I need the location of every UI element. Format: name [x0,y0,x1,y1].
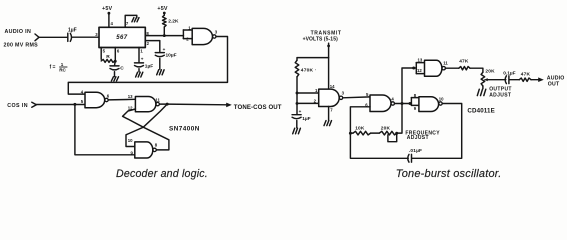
node junction latch out [166,103,169,106]
wire gate C output [160,103,168,105]
capacitor 0.1uF output [505,76,506,84]
svg-text:2.2K: 2.2K [168,19,179,25]
svg-text:567: 567 [116,35,127,41]
wire to G1 pin1 [297,92,319,94]
node junction pin8/2.2K [163,34,166,37]
svg-text:6: 6 [117,49,120,54]
svg-text:10: 10 [128,138,133,143]
svg-text:.01µF: .01µF [409,148,422,154]
wire G3 input bracket [410,98,412,106]
svg-text:+VOLTS (5-15): +VOLTS (5-15) [303,36,338,42]
NAND U2c gate C (pins 13,12,11) [135,97,156,112]
node junction pot wiper [395,132,398,135]
capacitor C (timing) [110,65,119,67]
svg-text:COS IN: COS IN [7,103,28,109]
svg-text:+: + [163,47,166,52]
wire pot wiper arrow [485,79,488,81]
capacitor 10uF [155,52,164,54]
wire cross-couple C-out to D pin10 [126,104,167,146]
svg-text:5: 5 [103,49,106,54]
resistor 470K [295,60,299,77]
ground (1uF G1) [293,128,295,134]
node junction G3 bracket [409,102,412,105]
node TONE-COS OUT arrow [226,103,232,108]
svg-text:1µF: 1µF [68,27,77,33]
svg-text:RC: RC [59,67,66,72]
wire audio-in to C-in [39,36,67,38]
svg-text:+: + [141,56,144,61]
wire 47K to pot top [470,68,483,72]
svg-text:470K ·: 470K · [301,67,317,73]
node COS IN input arrow [32,102,37,107]
svg-text:10K: 10K [355,125,365,131]
wire branch to 470K [297,58,329,61]
wire pin8 output [145,35,183,37]
capacitor .01uF [408,154,409,162]
wire pin5 [100,48,102,60]
wire C-in to pin3 [72,36,99,38]
svg-text:SN7400N: SN7400N [169,125,200,132]
wire pin6 [114,48,116,62]
wire inverter input bracket [182,30,184,39]
node +5V terminal (pin4) [108,12,111,15]
NAND G2 CD4011 (pins 5,6,4) [370,95,391,112]
node junction R/C/pin6 [114,60,117,63]
node junction G1 pin2 [296,102,299,105]
wire pin7 to ground [125,15,137,27]
svg-text:12: 12 [417,68,422,73]
svg-text:2: 2 [147,41,150,46]
wire pin1 to 1uF [138,48,140,63]
wire cap to G3 out [412,104,462,159]
svg-text:4: 4 [391,96,394,101]
wire cap to 47K [509,79,519,81]
potentiometer 20K output adjust [481,72,485,86]
svg-text:+5V: +5V [157,6,168,12]
svg-text:+5V: +5V [102,6,113,12]
svg-text:CD4011E: CD4011E [467,108,495,115]
NAND U2a (7400 pins 1,2,3) [192,28,212,44]
svg-text:9: 9 [414,106,417,111]
svg-text:47K: 47K [521,72,531,78]
NAND G1 CD4011 (pins 1,2,3,14,7) [319,89,340,106]
svg-text:12: 12 [128,105,133,110]
capacitor 1uF (G1 input) [292,114,301,116]
svg-text:1: 1 [140,49,143,54]
wire G1 out to G2 [343,96,370,99]
wire COS junction down to gate D pin9 [75,104,135,154]
svg-text:1µF: 1µF [302,116,310,122]
ground (pin7) [132,18,134,22]
node junction 10K / cap rail [349,132,352,135]
svg-text:OUT: OUT [548,81,560,87]
svg-text:f =: f = [50,65,56,71]
wire pin2 to 10uF [145,41,160,52]
wire G4 input bracket [415,63,417,74]
svg-text:ADJUST: ADJUST [489,93,511,99]
NAND U2d gate D (pins 10,9,8) [135,142,153,158]
wire pin7 to ground [328,107,330,121]
svg-text:Decoder and logic.: Decoder and logic. [116,168,208,180]
svg-text:AUDIO IN: AUDIO IN [5,29,32,35]
svg-text:3: 3 [95,32,98,37]
svg-text:14: 14 [330,84,335,89]
potentiometer 20K frequency adjust [379,131,397,135]
svg-text:6: 6 [107,93,110,98]
svg-text:4: 4 [111,21,114,26]
NAND G3 CD4011 (pins 8,9,10) [419,97,439,112]
node AUDIO OUT arrow [538,77,544,82]
resistor 2.2K [163,14,165,15]
svg-text:ADJUST: ADJUST [407,135,429,141]
svg-text:5: 5 [81,99,84,104]
wire 10K to 20K [371,132,380,134]
node junction COS IN [73,103,76,106]
svg-text:OUTPUT: OUTPUT [489,86,512,92]
svg-text:11: 11 [155,97,160,102]
wire to G1 pin2 [297,102,319,104]
ground (output pot) [477,89,479,95]
resistor 47K (first) [459,67,470,70]
svg-text:20K: 20K [485,69,495,75]
node +5V terminal (2.2K) [163,12,166,15]
svg-text:13: 13 [128,94,133,99]
capacitor 1uF (pin1) [135,62,144,64]
wire 470K to input node [296,77,298,115]
node AUDIO IN input arrow [35,34,39,41]
wire G4 out [445,67,458,69]
svg-text:11: 11 [443,61,448,66]
wire 20K to feedback vertical [397,68,416,133]
NAND U2b gate A (pins 4,5,6) [85,92,105,107]
ground (10uF) [157,70,159,75]
wire to AUDIO OUT arrow [531,79,539,81]
svg-text:47K: 47K [459,59,469,65]
svg-text:7: 7 [330,107,333,112]
node junction G1 pin1 [296,92,299,95]
svg-text:8: 8 [155,143,158,148]
svg-text:Tone-burst oscillator.: Tone-burst oscillator. [396,168,502,180]
wire COS IN to gate A pin5 [36,104,85,106]
resistor R (timing) [101,59,115,62]
svg-text:200 MV RMS: 200 MV RMS [4,42,39,48]
svg-text:0.1µF: 0.1µF [503,71,515,77]
wire latch out to TONE-COS OUT [167,103,227,106]
ground (1uF pin1) [136,72,138,77]
svg-text:20K: 20K [381,125,391,131]
wire junction to C [114,61,117,65]
wire rail .01uF bottom [350,133,408,158]
svg-text:R: R [106,54,110,60]
wire pin4 +5V [108,14,110,27]
svg-text:13: 13 [418,58,423,63]
resistor 10K [350,132,353,134]
svg-text:+: + [299,109,302,114]
ground (timing C) [111,77,113,81]
svg-text:10: 10 [439,97,444,102]
wire gate A out to gate C pin13 [108,98,135,101]
svg-text:3: 3 [342,90,345,95]
svg-text:10µF: 10µF [166,53,177,59]
NAND G4 CD4011 (pins 13,12,11) [425,60,442,76]
wire pot wiper loop [388,135,397,142]
svg-text:TONE-COS OUT: TONE-COS OUT [234,104,282,111]
wire G2 out to G3 bracket [395,103,412,105]
IC U1 567 body [99,27,145,47]
svg-text:C: C [120,65,124,71]
wire transmit rail down to pin14 [328,47,330,89]
wire cross-couple D-out to C pin12 [123,109,169,150]
wire G2 pin6 down to 10K node [350,107,370,133]
wire U2a out feedback to gate A pin4 [68,37,227,95]
node TRANSMIT +VOLTS terminal [327,45,330,48]
ground (pin7 G1) [324,121,326,126]
svg-text:7: 7 [126,21,129,26]
svg-text:3: 3 [215,29,218,34]
svg-text:1µF: 1µF [145,64,153,70]
resistor 47K (second) [519,78,531,81]
node junction G4 bracket [412,67,415,70]
capacitor C-in 1uF [67,33,69,41]
node junction main line / feedback [401,102,404,105]
